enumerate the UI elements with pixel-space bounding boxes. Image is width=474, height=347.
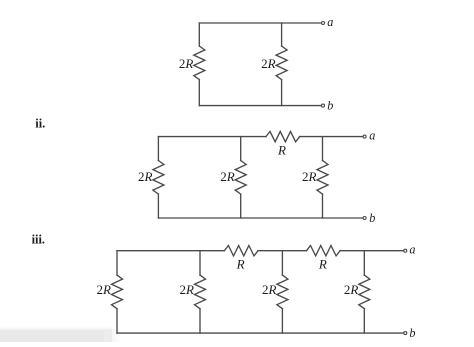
resistor 2R (circuit iii, branch 4) xyxy=(359,275,370,309)
wire: circuit ii top wire segment 2 xyxy=(300,136,363,138)
resistor 2R (circuit i, branch 1) xyxy=(194,46,205,80)
terminal b (circuit iii) xyxy=(404,332,407,335)
svg-text:2R: 2R xyxy=(302,169,317,184)
svg-text:2R: 2R xyxy=(344,282,359,297)
wire: circuit iii branch 4 upper lead xyxy=(363,251,365,275)
svg-text:2R: 2R xyxy=(97,282,112,297)
wire: circuit iii top wire segment 3 xyxy=(340,250,403,252)
wire: circuit i top wire segment 1 xyxy=(199,22,321,24)
svg-text:2R: 2R xyxy=(180,282,195,297)
resistor 2R (circuit i, branch 2) xyxy=(276,46,287,80)
terminal b (circuit i) xyxy=(322,104,325,107)
wire: circuit iii branch 1 lower lead xyxy=(116,309,118,333)
svg-text:a: a xyxy=(409,242,415,256)
wire: circuit i branch 2 lower lead xyxy=(281,80,283,106)
wire: circuit i branch 2 upper lead xyxy=(281,23,283,46)
wire: circuit iii branch 3 upper lead xyxy=(281,251,283,275)
svg-text:R: R xyxy=(277,143,286,158)
svg-text:a: a xyxy=(327,15,333,29)
wire: circuit iii top wire segment 1 xyxy=(117,250,224,252)
svg-text:a: a xyxy=(369,128,375,142)
terminal a (circuit i) xyxy=(322,22,325,25)
wire: circuit i branch 1 lower lead xyxy=(198,80,200,106)
resistor 2R (circuit iii, branch 2) xyxy=(195,275,206,309)
resistor 2R (circuit ii, branch 3) xyxy=(317,161,328,195)
wire: circuit i bottom wire xyxy=(199,105,321,107)
wire: circuit ii branch 3 upper lead xyxy=(322,137,324,161)
wire: circuit iii top wire segment 2 xyxy=(258,250,307,252)
resistor 2R (circuit ii, branch 1) xyxy=(153,161,164,195)
wire: circuit iii branch 2 lower lead xyxy=(199,309,201,333)
svg-text:b: b xyxy=(369,211,375,225)
wire: circuit ii top wire segment 1 xyxy=(158,136,266,138)
wire: circuit ii bottom wire xyxy=(158,217,362,219)
wire: circuit iii branch 3 lower lead xyxy=(281,309,283,333)
terminal a (circuit iii) xyxy=(404,249,407,252)
svg-text:b: b xyxy=(327,98,333,112)
wire: circuit ii branch 1 lower lead xyxy=(157,194,159,218)
wire: circuit iii branch 2 upper lead xyxy=(199,251,201,275)
terminal b (circuit ii) xyxy=(363,217,366,220)
wire: circuit ii branch 3 lower lead xyxy=(322,194,324,218)
resistor R (series, circuit ii, #1) xyxy=(266,131,300,141)
svg-text:2R: 2R xyxy=(262,282,277,297)
svg-text:iii.: iii. xyxy=(32,232,45,246)
page-edge shadow bottom-left xyxy=(0,325,112,342)
svg-text:b: b xyxy=(409,326,415,340)
svg-text:2R: 2R xyxy=(220,169,235,184)
svg-text:ii.: ii. xyxy=(35,117,45,131)
svg-text:R: R xyxy=(236,257,245,272)
wire: circuit i branch 1 upper lead xyxy=(198,23,200,46)
resistor 2R (circuit iii, branch 3) xyxy=(277,275,288,309)
resistor 2R (circuit ii, branch 2) xyxy=(235,161,246,195)
wire: circuit iii branch 1 upper lead xyxy=(116,251,118,275)
svg-text:2R: 2R xyxy=(261,56,276,71)
wire: circuit ii branch 1 upper lead xyxy=(157,137,159,161)
wire: circuit iii bottom wire xyxy=(117,332,403,334)
resistor R (series, circuit iii, #2) xyxy=(307,246,341,256)
svg-text:2R: 2R xyxy=(179,56,194,71)
terminal a (circuit ii) xyxy=(363,135,366,138)
resistor R (series, circuit iii, #1) xyxy=(224,246,258,256)
svg-text:2R: 2R xyxy=(138,169,153,184)
wire: circuit ii branch 2 lower lead xyxy=(240,194,242,218)
svg-text:R: R xyxy=(318,257,327,272)
resistor 2R (circuit iii, branch 1) xyxy=(112,275,123,309)
wire: circuit iii branch 4 lower lead xyxy=(363,309,365,333)
wire: circuit ii branch 2 upper lead xyxy=(240,137,242,161)
